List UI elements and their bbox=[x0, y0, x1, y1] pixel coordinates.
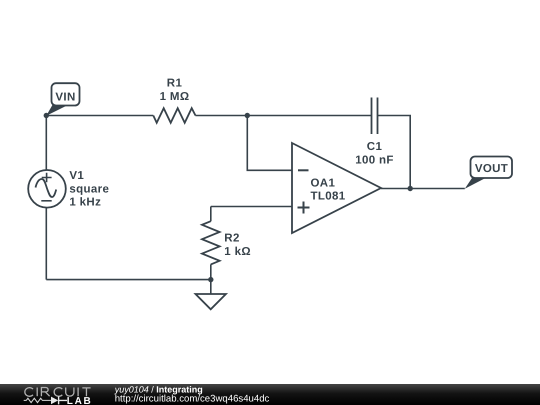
svg-text:R2: R2 bbox=[224, 233, 239, 245]
svg-text:R1: R1 bbox=[167, 78, 183, 90]
svg-text:C1: C1 bbox=[367, 141, 383, 153]
svg-text:square: square bbox=[69, 183, 109, 195]
wire C1 to feedback corner bbox=[378, 116, 411, 189]
junction node B (R1/C1/opamp) bbox=[245, 113, 250, 118]
svg-text:LAB: LAB bbox=[67, 396, 93, 405]
svg-text:1 kHz: 1 kHz bbox=[69, 197, 101, 209]
wire V1 top bbox=[45, 116, 47, 171]
wire bottom to R2 junction bbox=[46, 279, 211, 281]
ground bbox=[196, 280, 226, 310]
svg-text:http://circuitlab.com/ce3wq46s: http://circuitlab.com/ce3wq46s4u4dc bbox=[115, 394, 270, 405]
svg-text:OA1: OA1 bbox=[311, 178, 336, 190]
junction node C (output/feedback) bbox=[408, 186, 413, 191]
svg-text:TL081: TL081 bbox=[311, 191, 346, 203]
svg-text:VIN: VIN bbox=[55, 91, 75, 103]
logo diode bbox=[51, 397, 58, 405]
logo CIRCUIT letters bbox=[25, 388, 91, 397]
wire R1 to C1 bbox=[195, 115, 371, 117]
wire junction to inverting input bbox=[247, 116, 292, 171]
svg-text:V1: V1 bbox=[69, 170, 84, 182]
node VOUT flag bbox=[465, 157, 512, 189]
wire R2 top bbox=[210, 207, 212, 222]
voltage source V1 bbox=[28, 170, 109, 209]
junction node D (R2/ground) bbox=[208, 277, 213, 282]
wire noninverting input from R2 bbox=[211, 206, 292, 208]
node VIN flag bbox=[46, 83, 79, 116]
svg-text:100 nF: 100 nF bbox=[355, 154, 394, 166]
logo resistor-diode glyph bbox=[24, 398, 51, 402]
wire output bbox=[381, 188, 465, 190]
junction node A (VIN) bbox=[44, 113, 49, 118]
footer bar bbox=[0, 384, 540, 405]
svg-text:VOUT: VOUT bbox=[475, 163, 508, 175]
resistor R2 bbox=[202, 221, 251, 264]
svg-text:1 MΩ: 1 MΩ bbox=[160, 91, 190, 103]
resistor R1 bbox=[153, 78, 195, 123]
wire top from VIN node to R1 bbox=[46, 115, 153, 117]
wire R2 bottom bbox=[210, 264, 212, 279]
svg-text:1 kΩ: 1 kΩ bbox=[224, 246, 251, 258]
op-amp OA1 bbox=[292, 143, 381, 233]
wire V1 bottom bbox=[45, 208, 47, 280]
capacitor C1 bbox=[355, 98, 394, 167]
